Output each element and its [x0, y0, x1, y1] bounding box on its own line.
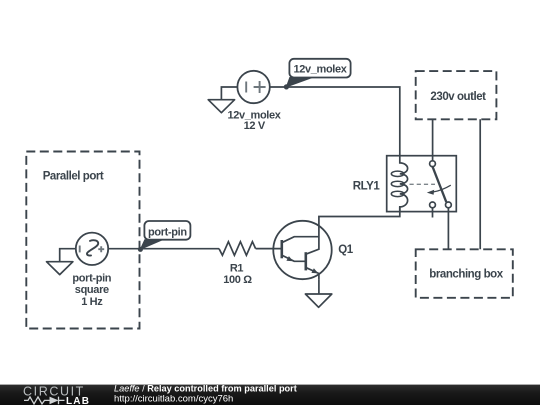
label R1 name/value [223, 262, 252, 286]
svg-text:1 Hz: 1 Hz [81, 296, 103, 308]
Q1 emitter 2 [307, 268, 319, 279]
svg-text:port-pin: port-pin [148, 226, 187, 238]
ground GND2 (port-pin source) [47, 262, 73, 275]
wire: V1 right to relay coil top [270, 87, 400, 156]
transistor Q1 (darlington) [273, 221, 331, 279]
voltage source V2 port-pin (square) [76, 233, 108, 265]
Q1 base bar 2 [304, 252, 307, 270]
Q1 collector 1 [283, 237, 319, 243]
relay arrow [434, 185, 451, 192]
svg-text:Q1: Q1 [338, 244, 353, 256]
relay switch blade [433, 167, 447, 203]
footer logo resistor-diode icon [24, 397, 65, 405]
node dot at 12v_molex [284, 84, 289, 89]
dashed enclosure: Parallel port [26, 152, 139, 329]
relay mechanical link (dashed) [410, 183, 436, 185]
relay throw stub [432, 208, 434, 218]
Q1 base bar 1 [280, 240, 283, 258]
svg-text:12 V: 12 V [244, 120, 266, 132]
relay coil [400, 156, 408, 212]
wire: Q1 emitter to ground [318, 279, 320, 294]
svg-text:RLY1: RLY1 [353, 180, 381, 192]
svg-text:R1: R1 [230, 262, 244, 274]
resistor R1 [219, 242, 256, 256]
svg-text:square: square [75, 284, 109, 296]
wire: outlet right to branching box [479, 119, 481, 249]
relay RLY1 [387, 156, 457, 218]
wire: relay coil bottom to Q1 collector [319, 207, 400, 227]
svg-text:branching box: branching box [429, 269, 503, 281]
node dot at port-pin [138, 247, 143, 252]
svg-text:Parallel port: Parallel port [43, 170, 104, 182]
relay common terminal [430, 161, 436, 167]
dashed enclosure: 230v outlet [416, 71, 497, 119]
ground GND1 (12v source) [208, 100, 234, 113]
wire: V2 right to resistor R1 [108, 248, 219, 250]
svg-text:http://circuitlab.com/cycy76h: http://circuitlab.com/cycy76h [114, 393, 233, 404]
Q1 emitter 1 [283, 256, 306, 262]
wire: port-pin source left lead [60, 249, 76, 262]
label V2 name/value [72, 273, 111, 308]
wire: relay throw to branching box [447, 208, 449, 250]
net flag port-pin [140, 221, 190, 249]
svg-text:12v_molex: 12v_molex [293, 64, 347, 76]
footer bar [0, 385, 540, 405]
relay throw terminal right [446, 202, 452, 208]
relay throw terminal left [430, 202, 436, 208]
svg-text:100 Ω: 100 Ω [223, 274, 252, 286]
wire: R1 to Q1 base [256, 248, 282, 250]
dashed enclosure: branching box [416, 249, 513, 297]
svg-text:port-pin: port-pin [72, 273, 111, 285]
Q1 collector 2 [307, 227, 319, 254]
wire: V1 left lead to ground [221, 87, 237, 100]
svg-text:230v outlet: 230v outlet [430, 91, 486, 103]
label V1 name/value [227, 110, 281, 132]
voltage source V1 12v_molex [237, 71, 269, 103]
svg-text:LAB: LAB [66, 396, 90, 405]
net flag 12v_molex [286, 59, 350, 87]
ground GND3 (Q1 emitter) [305, 294, 331, 307]
svg-text:Laeffe / Relay controlled from: Laeffe / Relay controlled from parallel … [114, 383, 297, 393]
wire: outlet to relay common [432, 119, 434, 161]
